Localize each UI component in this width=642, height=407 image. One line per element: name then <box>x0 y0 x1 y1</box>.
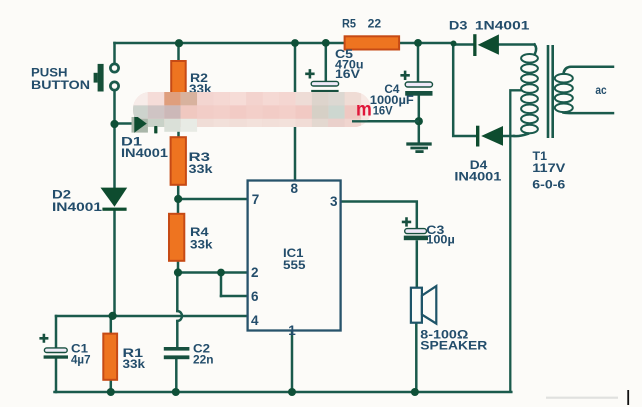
svg-text:22: 22 <box>368 16 382 30</box>
svg-text:2: 2 <box>251 265 259 280</box>
svg-text:6: 6 <box>251 289 259 304</box>
svg-text:4: 4 <box>251 313 259 328</box>
svg-text:SPEAKER: SPEAKER <box>420 339 487 353</box>
svg-text:1N4001: 1N4001 <box>475 18 530 32</box>
svg-text:R5: R5 <box>342 16 356 30</box>
svg-text:m: m <box>356 100 372 121</box>
svg-text:D3: D3 <box>449 18 468 32</box>
svg-text:8: 8 <box>291 181 299 196</box>
svg-text:7: 7 <box>252 192 260 207</box>
svg-text:6-0-6: 6-0-6 <box>532 177 565 191</box>
svg-text:1: 1 <box>288 323 296 338</box>
svg-text:3: 3 <box>330 194 338 209</box>
svg-text:117V: 117V <box>532 161 565 175</box>
svg-text:BUTTON: BUTTON <box>31 78 90 92</box>
svg-text:IN4001: IN4001 <box>52 200 102 214</box>
svg-text:555: 555 <box>283 258 306 272</box>
svg-text:33k: 33k <box>190 237 213 251</box>
svg-text:ac: ac <box>595 85 607 97</box>
svg-text:22n: 22n <box>193 353 214 367</box>
svg-text:16V: 16V <box>373 103 393 117</box>
svg-text:16V: 16V <box>335 67 360 81</box>
svg-text:33k: 33k <box>189 162 213 176</box>
svg-text:IN4001: IN4001 <box>121 146 168 160</box>
svg-text:4µ7: 4µ7 <box>71 353 91 367</box>
svg-text:IN4001: IN4001 <box>454 170 501 184</box>
svg-text:33k: 33k <box>123 357 146 371</box>
svg-text:100µ: 100µ <box>426 233 455 247</box>
